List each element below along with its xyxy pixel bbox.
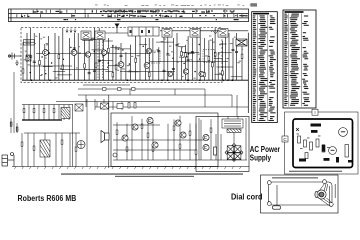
bus above AF box [95,106,248,108]
transistor TR5d [101,50,106,55]
frame label C [282,136,288,142]
pointer slider [273,206,281,209]
transistor TR13 [203,144,209,150]
small input components [10,118,18,133]
AM IF sub-board [22,104,83,167]
svg-text:Roberts R606 MB: Roberts R606 MB [18,193,77,203]
transistor TR12 [203,134,209,140]
switch block [128,27,159,36]
band switch dashed links [98,33,103,80]
left vertical wire [13,72,15,133]
AGC arrows [66,29,76,33]
IF transformer T4 [190,29,200,38]
pulley 2 [323,180,327,184]
FM tuner label box [24,40,35,46]
aerial / antenna input [8,53,21,66]
dial scale number runs [100,10,245,16]
oscillator screening can (dashed) [150,51,161,63]
transistor TR6 [122,135,128,141]
transistor TR5a [85,52,90,57]
left boundary wire of AF region [86,99,88,167]
tuner section dashed enclosure [21,28,222,83]
dial scale tick marks and figures [17,10,248,20]
dial drive spring [211,31,220,34]
dial cord outer frame [261,175,339,213]
svg-text:Supply: Supply [250,153,271,163]
header fine print above scale [95,3,257,6]
cord run to drum [320,183,332,206]
IF transformer T3 [162,29,172,38]
detector transistor hatched [61,108,70,119]
transistor TR9 [152,142,158,148]
transistor TR11 [180,132,186,138]
PCB layout outer frame [285,112,359,174]
pointer wire [276,185,278,205]
dial cord caption (tiny) [272,177,318,178]
ground bus of tuner section [22,79,248,81]
vertical wire to AF section [108,95,110,168]
pulley 3 [267,202,271,206]
tuner vertical wires with resistors and capacitors [22,42,24,80]
link wires [89,39,101,41]
tuning drum [315,190,326,199]
AF amplifier / power supply enclosure [111,113,218,167]
mains transformer T9 [222,119,243,133]
PCB board outline [293,119,353,168]
headphone jack [113,153,117,157]
transistor TR10 [175,120,181,126]
PSU enclosure [196,117,249,172]
dial scale row dividers [37,9,225,14]
side note (vertical tiny text) [335,184,336,198]
transistor TR7 [132,124,138,130]
bridge rectifier MR1 [225,144,243,162]
transistor TR2 [71,50,77,56]
PCB caption (tiny) [289,171,342,172]
interconnect wire C [56,101,160,103]
chassis ground bus [12,166,249,168]
transistor TR5b [167,71,172,76]
svg-text:I: I [314,110,315,115]
transistor TR5e [146,48,151,53]
parts list table 1 (capacitors) [252,12,278,123]
supply rail (top bus) [160,30,248,32]
oscillator coil cluster [95,99,136,110]
coupling coil L1 [236,39,247,46]
transistor TR1 [43,50,49,56]
copyright fine print line 2 [115,176,194,177]
hatched RF coil [26,55,31,61]
interconnect wire A [78,88,205,90]
frame label I [312,109,318,115]
junction stubs [86,89,232,107]
bus junction dots [31,79,234,81]
dial scale figure cluster [109,10,183,16]
transistor TR5 [183,69,188,74]
transistor TR5c [199,71,204,76]
smoothing capacitor C90 [214,147,217,155]
speaker [101,131,109,143]
volume control VR1 [77,141,85,149]
pulley 4 [329,203,333,207]
component value labels (tiny) [24,36,246,79]
dial cord path [269,182,333,205]
detector screening can (dashed) [203,50,215,63]
svg-text:Dial cord: Dial cord [231,192,263,201]
series components on link wire [83,85,237,117]
PCB components [296,124,352,163]
copyright fine print line 1 [61,173,243,174]
volume / driver stage wiring [21,133,80,167]
transistor TR8 [147,117,153,123]
dial pointer marker [115,24,120,28]
IF transformer T1 [81,31,91,40]
transistor TR3 [118,62,124,68]
interconnect wire B [78,94,232,96]
dial scale [9,9,249,22]
parts list table 2 (resistors) [283,10,316,108]
transistor TR4 [144,63,150,69]
right vertical feed wire [247,33,249,113]
pulley 1 [267,181,271,185]
IF transformer T5 [218,29,228,38]
IF transformer T2 [95,31,105,40]
AF internal wiring [113,116,247,160]
jack socket J1 [2,153,14,167]
driver transformer T8 [40,133,50,167]
